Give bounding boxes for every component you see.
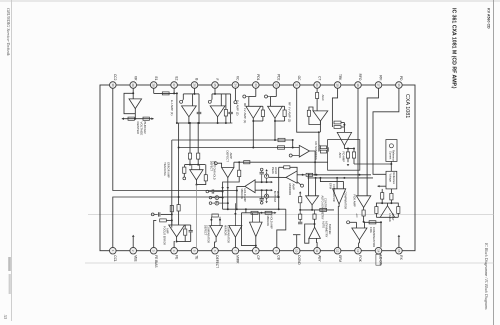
svg-text:LASER: LASER [388, 213, 392, 222]
svg-text:12: 12 [336, 249, 340, 253]
svg-text:DEFECT: DEFECT [226, 151, 230, 163]
svg-text:CONT: CONT [391, 213, 395, 221]
svg-text:AMP: AMP [229, 153, 233, 159]
svg-text:COMPARATOR: COMPARATOR [207, 225, 211, 243]
svg-text:RX: RX [399, 255, 403, 260]
svg-text:HOLD: HOLD [276, 191, 280, 198]
svg-text:VR: VR [133, 76, 137, 81]
svg-text:HOLD AMP: HOLD AMP [243, 189, 247, 203]
svg-text:COMPARATOR: COMPARATOR [343, 192, 346, 210]
svg-text:F: F [215, 78, 219, 80]
svg-text:RFI: RFI [379, 75, 383, 80]
svg-text:21: 21 [295, 83, 299, 87]
svg-text:COMPARATOR: COMPARATOR [332, 184, 335, 202]
svg-text:AMP: AMP [317, 145, 321, 151]
svg-text:CB: CB [277, 255, 281, 259]
svg-text:FOK: FOK [358, 255, 362, 262]
svg-text:COMPARATOR: COMPARATOR [227, 225, 231, 243]
svg-text:FOK: FOK [369, 227, 373, 233]
svg-text:COMPARATOR: COMPARATOR [372, 227, 376, 247]
svg-text:B: B [195, 78, 199, 80]
svg-text:Current: Current [388, 151, 391, 160]
svg-text:RFO: RFO [358, 74, 362, 81]
svg-text:APC: APC [338, 153, 342, 159]
svg-text:APC: APC [355, 214, 358, 219]
svg-text:10: 10 [295, 249, 299, 253]
svg-text:16: 16 [397, 83, 401, 87]
svg-text:14: 14 [377, 249, 381, 253]
svg-text:HOLD AMP: HOLD AMP [269, 216, 273, 230]
svg-text:MIRROR: MIRROR [288, 184, 292, 196]
svg-text:Voltage: Voltage [389, 174, 392, 183]
svg-text:E-I AMP (2): E-I AMP (2) [235, 100, 239, 115]
svg-text:E1: E1 [154, 76, 158, 80]
svg-text:RF I-V AMP (2): RF I-V AMP (2) [287, 102, 291, 122]
svg-text:GRUNDIG Service-Technik: GRUNDIG Service-Technik [6, 8, 11, 56]
svg-text:BOTTOM HOLD: BOTTOM HOLD [212, 161, 216, 180]
svg-text:18: 18 [356, 83, 360, 87]
svg-text:E2: E2 [174, 76, 178, 80]
svg-text:DGND: DGND [297, 255, 301, 265]
svg-text:CP: CP [256, 255, 260, 259]
svg-text:25: 25 [213, 83, 217, 87]
svg-text:11: 11 [315, 249, 319, 252]
svg-text:30: 30 [111, 83, 115, 87]
svg-text:CC2: CC2 [113, 74, 117, 81]
svg-text:KV A560 CD: KV A560 CD [487, 8, 491, 29]
svg-text:BUFFER: BUFFER [328, 224, 332, 235]
svg-text:DEFECT: DEFECT [215, 255, 219, 268]
svg-text:CENTER: CENTER [136, 122, 140, 135]
svg-text:22: 22 [274, 83, 278, 87]
svg-text:AGC: AGC [321, 95, 325, 101]
svg-text:PD AMP: PD AMP [341, 152, 345, 163]
svg-text:FOK AMP: FOK AMP [353, 194, 357, 207]
svg-text:CT: CT [317, 76, 321, 80]
svg-text:ERROR AMP: ERROR AMP [166, 162, 170, 178]
svg-text:17: 17 [377, 83, 381, 87]
svg-text:MIRR: MIRR [236, 255, 240, 264]
svg-text:24: 24 [233, 83, 237, 87]
svg-text:PD1: PD1 [256, 74, 260, 80]
svg-text:FE BIAS: FE BIAS [154, 255, 158, 267]
svg-text:AMP: AMP [166, 228, 170, 234]
svg-text:27: 27 [172, 83, 176, 87]
svg-text:CC1: CC1 [113, 255, 117, 262]
svg-text:HOLD: HOLD [274, 167, 278, 174]
svg-text:53: 53 [3, 315, 8, 319]
svg-text:EFM: EFM [338, 255, 342, 262]
svg-text:E-I AMP (1): E-I AMP (1) [170, 100, 174, 115]
svg-text:23: 23 [254, 83, 258, 87]
svg-text:TRK: TRK [338, 74, 342, 81]
svg-text:GC: GC [297, 76, 301, 81]
svg-text:13: 13 [356, 249, 360, 253]
svg-text:Reference: Reference [392, 173, 395, 185]
svg-text:BUFFER: BUFFER [143, 122, 147, 135]
svg-text:19: 19 [336, 83, 340, 87]
svg-text:FE: FE [174, 255, 178, 259]
svg-text:ABY: ABY [317, 255, 321, 262]
svg-text:29: 29 [131, 83, 135, 87]
svg-text:28: 28 [152, 83, 156, 87]
svg-text:Reference: Reference [392, 150, 395, 162]
svg-text:IC 361 CXA 1081 M (CD RF AMP: IC 361 CXA 1081 M (CD RF AMP.) [451, 8, 457, 89]
svg-text:RF I-V AMP (1): RF I-V AMP (1) [243, 103, 247, 123]
svg-text:VC: VC [236, 76, 240, 81]
svg-text:AMP: AMP [291, 184, 295, 190]
svg-text:VOLTAGE: VOLTAGE [139, 122, 143, 136]
svg-text:CXA 1081: CXA 1081 [404, 94, 410, 118]
svg-text:TE: TE [195, 255, 199, 259]
svg-text:PD: PD [399, 76, 403, 81]
svg-text:IC Block Diagramme / IC Block: IC Block Diagramme / IC Block Diagrams [484, 242, 488, 310]
svg-text:PD2: PD2 [277, 74, 281, 80]
svg-text:26: 26 [193, 83, 197, 87]
svg-text:VEE: VEE [133, 255, 137, 261]
svg-text:20: 20 [315, 83, 319, 87]
svg-text:15: 15 [397, 249, 401, 253]
